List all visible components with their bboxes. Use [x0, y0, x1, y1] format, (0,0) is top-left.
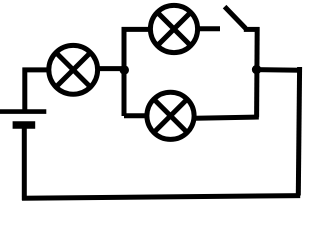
lamp L3	[147, 92, 194, 139]
wire battery- down rail	[22, 129, 27, 201]
lamp L1	[49, 45, 98, 94]
wire node B riser (switch side down through node to L3 wire)	[254, 27, 260, 117]
battery short plate (-)	[13, 121, 36, 129]
wire node A riser	[122, 27, 127, 116]
wire L2 to switch contact	[200, 26, 221, 31]
right rail	[298, 67, 299, 196]
lamp L2	[150, 5, 197, 52]
bottom return wire	[22, 196, 300, 199]
wire to lamp L1	[23, 67, 50, 72]
wire L3 to riser	[196, 117, 259, 118]
node A junction dot	[120, 65, 129, 74]
wire node B to right rail	[257, 67, 302, 73]
wire node A to lamp L3	[124, 113, 148, 118]
wire to lamp L2	[122, 27, 151, 32]
wire L1 to node A	[97, 66, 124, 71]
wire switch to node B	[244, 27, 260, 32]
wire battery+ riser	[22, 68, 27, 112]
node B junction dot	[252, 65, 261, 74]
switch S1 blade (open)	[225, 7, 246, 29]
battery long plate (+)	[0, 109, 46, 114]
